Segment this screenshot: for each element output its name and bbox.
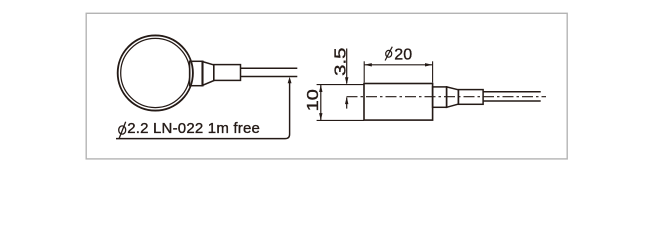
dim phi20: extension line right	[432, 61, 434, 82]
dim 10: bottom extension line	[317, 119, 364, 121]
dim phi20: dimension line	[364, 64, 432, 66]
dim phi20: diameter symbol	[385, 47, 392, 61]
cable bottom line (front view)	[241, 76, 298, 78]
svg-text:10: 10	[304, 89, 322, 111]
cable sleeve (side view)	[458, 90, 483, 105]
connector taper (front view)	[202, 62, 214, 86]
connector taper (side view)	[447, 87, 459, 107]
cable top line (side view)	[483, 91, 541, 93]
sensor disc inner circle	[121, 38, 190, 107]
svg-text:3.5: 3.5	[331, 48, 348, 76]
dim phi20: extension line left	[363, 61, 365, 82]
leader line from label to cable	[116, 83, 290, 139]
leader arrowhead	[288, 77, 292, 84]
connector ferrule (front view)	[190, 61, 203, 85]
label diameter symbol	[119, 122, 126, 138]
svg-text:20: 20	[394, 46, 412, 63]
cable bottom line (side view)	[483, 100, 541, 102]
cable sleeve (front view)	[214, 65, 241, 81]
dim 3.5: upper shaft with down arrowhead	[346, 49, 348, 84]
cable top line (front view)	[241, 67, 298, 69]
center line (dash-dot)	[347, 96, 547, 98]
dim 10: top extension line	[317, 84, 364, 86]
dim 10: dimension line with arrowheads	[320, 85, 322, 121]
sensor disc outer circle	[118, 35, 193, 110]
dim 3.5: lower shaft with up arrowhead	[346, 98, 348, 109]
connector ferrule (side view)	[433, 87, 447, 107]
svg-text:2.2 LN-022 1m free: 2.2 LN-022 1m free	[127, 120, 260, 137]
dim phi20: right arrowhead	[425, 63, 433, 66]
sensor body rect (side view)	[364, 84, 433, 121]
dim phi20: left arrowhead	[364, 63, 372, 66]
drawing frame border	[86, 13, 567, 159]
